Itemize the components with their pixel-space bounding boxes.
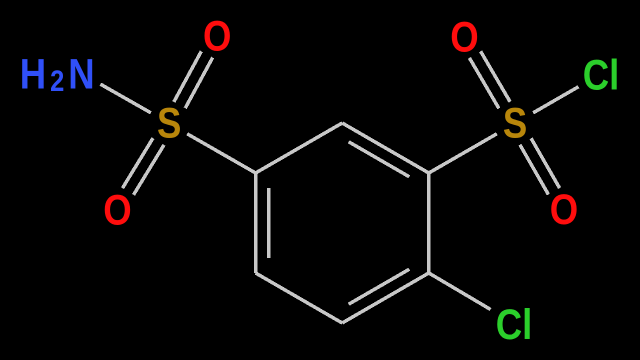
bond S1=O2 line 1 bbox=[123, 138, 154, 188]
ring bond C2-C3 bbox=[342, 123, 429, 173]
bond S2=O4 line 1 bbox=[520, 145, 549, 195]
svg-text:O: O bbox=[450, 14, 478, 61]
bond C4-Cl2 bbox=[429, 273, 491, 310]
svg-text:S: S bbox=[503, 100, 527, 147]
bond S2=O4 line 2 bbox=[531, 138, 560, 188]
svg-text:N: N bbox=[68, 51, 94, 98]
svg-text:O: O bbox=[103, 187, 131, 234]
ring bond C1-C2 bbox=[256, 123, 343, 173]
ring bond C5-C6 bbox=[256, 273, 343, 323]
svg-text:Cl: Cl bbox=[496, 301, 533, 348]
svg-text:Cl: Cl bbox=[583, 52, 620, 99]
aromatic inner line C2=C3 bbox=[349, 142, 410, 177]
svg-text:S: S bbox=[157, 100, 181, 147]
aromatic inner line C4=C5 bbox=[349, 269, 410, 304]
bond S2=O3 line 2 bbox=[469, 58, 499, 109]
svg-text:O: O bbox=[550, 186, 578, 233]
bond N-S1 bbox=[101, 84, 151, 113]
ring bond C3-C4 bbox=[427, 173, 431, 273]
bond S2-C3 bbox=[429, 134, 497, 173]
bond S1=O1 line 2 bbox=[174, 51, 202, 102]
bond S2-Cl1 bbox=[533, 87, 578, 113]
aromatic inner line C6=C1 bbox=[267, 188, 271, 258]
svg-text:2: 2 bbox=[50, 64, 64, 97]
bond S1-C1 bbox=[187, 134, 255, 173]
bond S1=O1 line 1 bbox=[185, 58, 213, 109]
bond S2=O3 line 1 bbox=[481, 51, 511, 102]
svg-text:H: H bbox=[20, 51, 46, 98]
ring bond C4-C5 bbox=[342, 273, 429, 323]
bond S1=O2 line 2 bbox=[134, 145, 165, 195]
ring bond C6-C1 bbox=[254, 173, 258, 273]
svg-text:O: O bbox=[203, 13, 231, 60]
